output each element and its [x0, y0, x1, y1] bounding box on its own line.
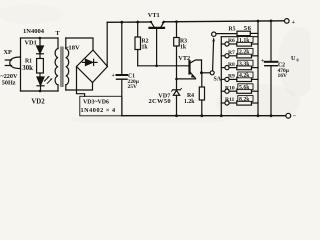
svg-text:1N4004: 1N4004 [23, 28, 45, 35]
resistor R9 [221, 72, 258, 82]
node junction VD1 branch [39, 37, 42, 40]
node bus ladder left [220, 114, 223, 117]
svg-text:+: + [261, 59, 264, 65]
LED VD2 [37, 77, 52, 92]
svg-text:1k: 1k [180, 45, 187, 51]
svg-text:VD1: VD1 [25, 40, 37, 47]
plug XP [5, 38, 20, 91]
svg-text:~18V: ~18V [65, 45, 80, 52]
label box VD3~VD6 1N4002x4 [80, 96, 122, 116]
node bus right column [257, 114, 260, 117]
transistor VT1 [150, 22, 165, 66]
node VT1 rail right [163, 21, 165, 23]
svg-text:56: 56 [244, 25, 252, 32]
svg-text:4.2k: 4.2k [239, 73, 250, 79]
svg-text:R10: R10 [225, 85, 235, 91]
node junction VD2 bottom [39, 90, 42, 93]
svg-text:16V: 16V [278, 73, 288, 79]
node VT1 base [155, 65, 158, 68]
svg-text:2.2k: 2.2k [239, 50, 250, 56]
bridge rectifier VD3-VD6 [77, 50, 108, 83]
wire bridge minus down [77, 67, 85, 97]
svg-text:+: + [292, 19, 296, 26]
resistor R5 [216, 31, 258, 35]
node bus zener [175, 114, 178, 117]
node bus R4 [200, 114, 203, 117]
svg-text:30k: 30k [22, 65, 33, 72]
svg-text:25V: 25V [128, 84, 138, 90]
svg-text:R8: R8 [228, 62, 235, 68]
node VT1 rail left [150, 21, 152, 23]
svg-text:VT1: VT1 [148, 12, 160, 19]
resistor R8 [221, 60, 258, 69]
svg-text:1k: 1k [142, 45, 149, 51]
svg-text:R5: R5 [229, 27, 236, 33]
resistor R1 [37, 59, 44, 77]
svg-text:R6: R6 [228, 38, 235, 44]
node VT2 collector R4 SA [200, 71, 203, 74]
svg-text:R1: R1 [25, 59, 32, 65]
wire secondary bottom [66, 83, 93, 91]
svg-text:0: 0 [297, 58, 299, 63]
node bus C2 [270, 114, 273, 117]
svg-text:5.6k: 5.6k [239, 85, 250, 91]
resistor R7 [221, 48, 258, 58]
svg-text:SA: SA [214, 77, 222, 83]
resistor R4 [199, 73, 204, 116]
wire bridge plus up [106, 22, 108, 66]
svg-text:3.3k: 3.3k [239, 61, 250, 67]
svg-text:VD3~VD6: VD3~VD6 [83, 100, 109, 106]
resistor R11 [221, 96, 258, 106]
svg-text:50Hz: 50Hz [2, 80, 16, 87]
diode VD1 [37, 38, 44, 59]
svg-text:+: + [112, 73, 115, 79]
svg-text:XP: XP [4, 49, 12, 56]
wire top indicator [21, 37, 59, 39]
svg-text:R11: R11 [225, 97, 235, 103]
svg-text:R9: R9 [228, 74, 235, 80]
resistor R2 [135, 21, 141, 66]
transistor VT2 [177, 60, 202, 79]
output plus terminal [285, 19, 290, 24]
wire left ladder column [221, 37, 258, 116]
resistor R3 [174, 20, 180, 79]
resistor R10 [221, 84, 258, 93]
svg-text:R7: R7 [228, 50, 235, 56]
svg-text:8.2k: 8.2k [239, 97, 250, 103]
svg-text:1.1k: 1.1k [239, 38, 250, 44]
wire bottom indicator [21, 90, 59, 92]
capacitor C2 [265, 20, 278, 116]
svg-text:VD2: VD2 [31, 98, 45, 105]
wire base line [138, 65, 189, 67]
svg-text:2CW50: 2CW50 [149, 98, 171, 105]
capacitor C1 [117, 21, 128, 116]
zener VD7 [172, 78, 182, 116]
svg-text:−: − [293, 113, 297, 120]
svg-text:1.2k: 1.2k [184, 99, 195, 105]
bottom bus [122, 115, 285, 117]
transformer T [55, 38, 69, 91]
wire right column [257, 20, 260, 116]
svg-text:1N4002 × 4: 1N4002 × 4 [81, 107, 116, 114]
wire secondary top [66, 38, 93, 50]
top rail [107, 21, 151, 23]
svg-text:U: U [291, 55, 296, 62]
switch SA [210, 32, 216, 75]
resistor R6 [221, 37, 258, 47]
svg-text:VT2: VT2 [178, 55, 190, 62]
output minus terminal [286, 113, 291, 118]
wire to SA pivot [202, 72, 211, 74]
